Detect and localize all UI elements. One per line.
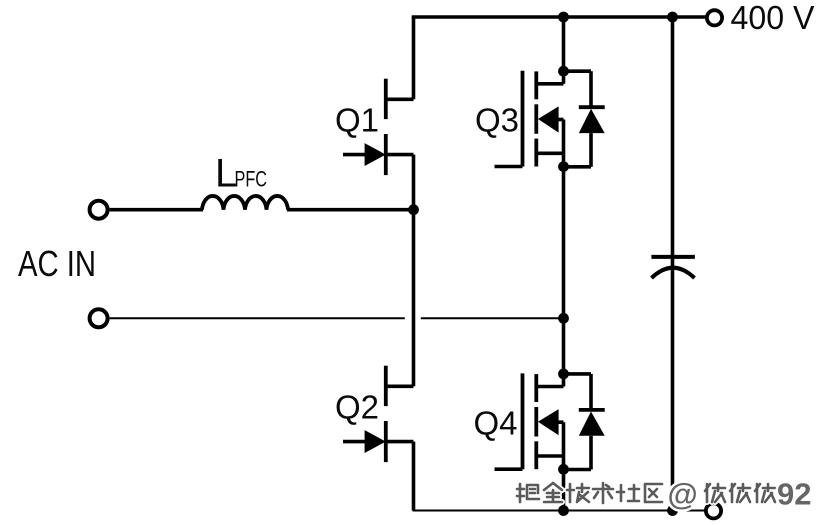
wire: mid column Q3 body/source to Q4 drain bbox=[562, 120, 566, 387]
wire: inductor to node A bbox=[287, 208, 414, 212]
node: Q3 source / body diode junction bbox=[558, 161, 569, 172]
svg-text:Q4: Q4 bbox=[474, 404, 518, 441]
terminal: AC input line 2 bbox=[90, 309, 108, 327]
svg-text:400 V: 400 V bbox=[731, 0, 816, 37]
wire: AC line 2 right part to midpoint node B bbox=[421, 317, 564, 319]
wire: mid column Q4 source to bottom rail bbox=[562, 422, 566, 510]
svg-text:Q3: Q3 bbox=[475, 102, 519, 139]
inductor L_PFC bbox=[202, 196, 288, 210]
capacitor C1 output (polarized) bbox=[651, 257, 695, 278]
wire: capacitor column from curved plate to bottom rail bbox=[671, 258, 675, 511]
transistor Q1 (GaN switch) bbox=[343, 79, 414, 175]
terminal: 400V positive output bbox=[707, 10, 722, 25]
wire: capacitor column from top rail to plate bbox=[671, 17, 675, 257]
terminal: output return bbox=[706, 503, 721, 518]
wire: AC line 2 left part (crossover break at left column) bbox=[110, 317, 405, 319]
node: Q3 drain / body diode junction bbox=[558, 66, 569, 77]
label Q4 bbox=[474, 404, 518, 441]
label Q3 bbox=[475, 102, 519, 139]
wire: AC line 1 from terminal to inductor bbox=[110, 208, 203, 212]
node: bottom rail / Q4 source junction bbox=[558, 505, 569, 516]
node: top rail / capacitor junction bbox=[667, 12, 678, 23]
wire: Q2 source down to bottom rail bbox=[412, 442, 416, 511]
svg-text:Q1: Q1 bbox=[335, 102, 379, 139]
node: bottom rail / capacitor junction bbox=[667, 505, 678, 516]
body diode of Q4 bbox=[564, 374, 605, 470]
node: top rail / Q3 drain junction bbox=[558, 12, 569, 23]
node A: inductor / half-bridge junction bbox=[408, 204, 419, 215]
wire: left column Q1 source to Q2 drain bbox=[412, 155, 416, 387]
wire: Q1 drain riser to top rail bbox=[412, 17, 416, 99]
watermark: 掘金技术社区 @ 依依依92 bbox=[517, 477, 811, 512]
wire: top rail (400V bus) bbox=[412, 15, 706, 19]
svg-text:92: 92 bbox=[777, 477, 811, 512]
node B: AC line 2 / Q3-Q4 midpoint junction bbox=[558, 313, 569, 324]
node: Q4 source / body diode junction bbox=[558, 464, 569, 475]
svg-text:Q2: Q2 bbox=[335, 389, 379, 426]
label Q1 bbox=[335, 102, 379, 139]
svg-text:PFC: PFC bbox=[235, 167, 268, 192]
svg-text:AC IN: AC IN bbox=[18, 243, 96, 284]
node: Q4 drain / body diode junction bbox=[558, 369, 569, 380]
svg-text:@: @ bbox=[668, 477, 698, 512]
label L_PFC value bbox=[215, 152, 267, 196]
wire: bottom rail (return bus) bbox=[413, 510, 707, 512]
transistor Q2 (GaN switch) bbox=[343, 366, 414, 462]
label AC IN bbox=[18, 243, 96, 284]
wire: mid column top rail to Q3 drain bbox=[562, 17, 566, 84]
label 400 V bbox=[731, 0, 816, 37]
transistor Q3 (MOSFET with body diode) bbox=[495, 71, 564, 167]
label Q2 bbox=[335, 389, 379, 426]
terminal: AC input line 1 bbox=[90, 201, 108, 219]
body diode of Q3 bbox=[564, 71, 605, 167]
transistor Q4 (MOSFET with body diode) bbox=[495, 373, 564, 469]
